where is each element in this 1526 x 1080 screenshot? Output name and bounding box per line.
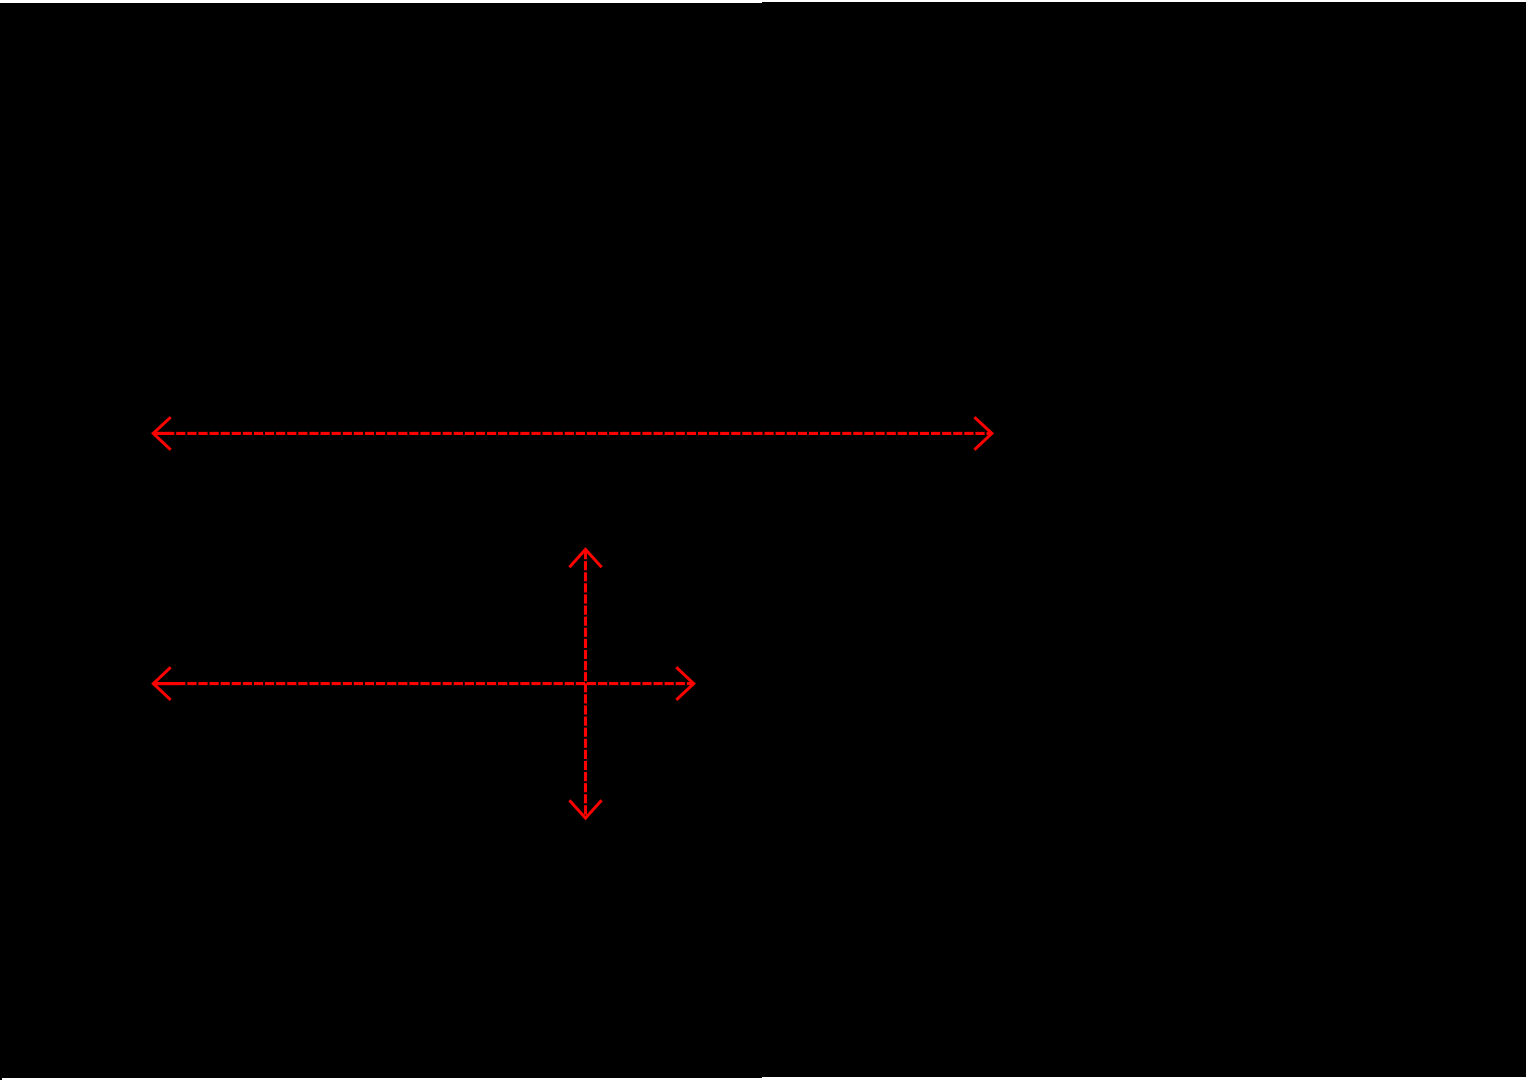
arrow 2 right arrowhead	[677, 668, 693, 699]
white page edge, top-right half	[762, 0, 1526, 2]
white page edge, bottom-right half	[762, 1077, 1526, 1080]
arrow 1 right arrowhead	[976, 418, 992, 449]
arrow 1 shaft solid lead-in at left tip	[154, 432, 172, 435]
arrow 2 left arrowhead	[153, 668, 169, 699]
arrow 3 (vertical) shaft	[584, 550, 587, 817]
arrow 2 (short horizontal) shaft	[154, 682, 693, 685]
arrow 3 bottom arrowhead	[570, 801, 600, 818]
arrow 1 left arrowhead	[153, 418, 169, 449]
white page edge, bottom-left half	[2, 1078, 762, 1080]
white page edge, top-left half	[0, 0, 762, 3]
arrow 3 top arrowhead	[570, 549, 600, 566]
arrow 2 shaft solid lead-in at left tip	[154, 682, 181, 685]
arrow 1 (long horizontal) shaft	[154, 432, 991, 435]
